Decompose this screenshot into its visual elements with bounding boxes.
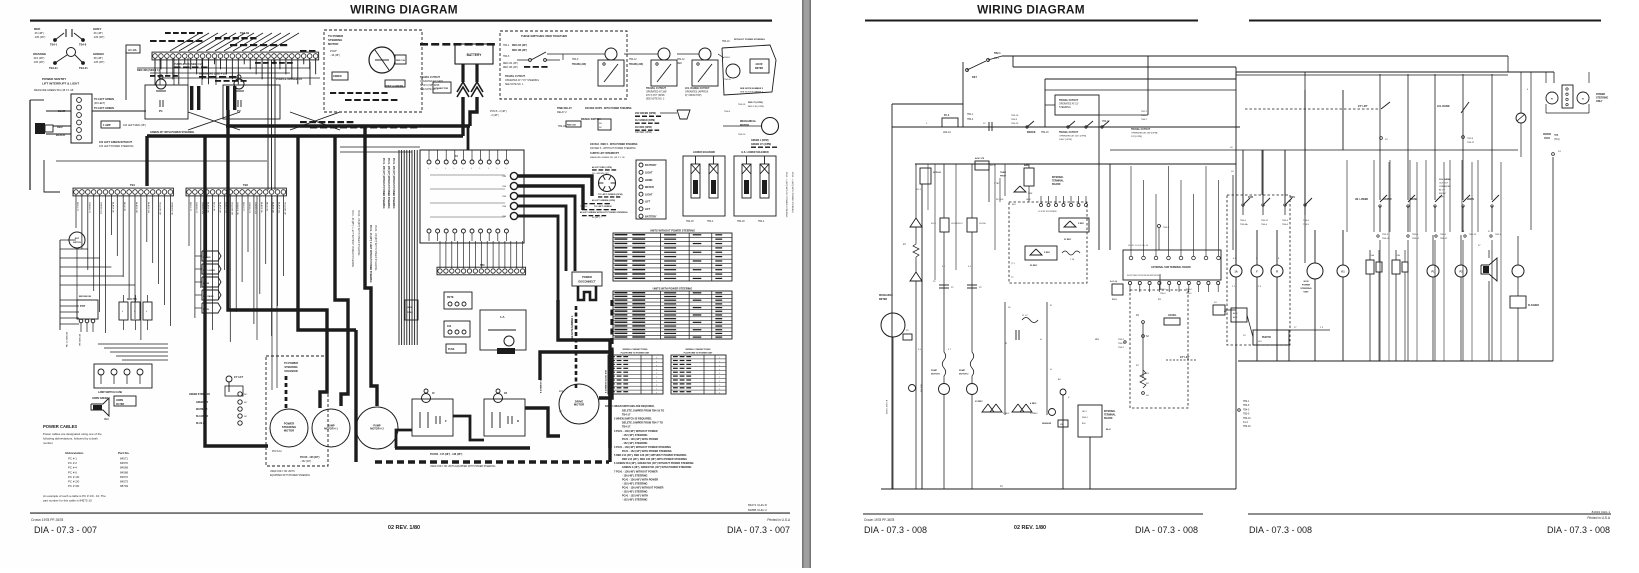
svg-text:BROWN 3M: BROWN 3M [78, 334, 80, 346]
svg-text:PC#1 - 185 (48") WITHOUT POWER: PC#1 - 185 (48") WITHOUT POWER STEERING [387, 158, 390, 209]
svg-text:BOARD: BOARD [1052, 183, 1061, 186]
svg-text:- 2 (48"): - 2 (48") [490, 114, 499, 117]
svg-text:BRAKE: BRAKE [1027, 131, 1036, 134]
svg-text:GREEN STRIPE 2/0: GREEN STRIPE 2/0 [189, 394, 211, 396]
svg-text:Part No.: Part No. [118, 451, 130, 455]
svg-text:TB2: TB2 [243, 183, 248, 187]
svg-text:7: 7 [719, 377, 720, 379]
svg-text:84568: 84568 [120, 470, 128, 474]
svg-text:L3 L5 L7 L4 L5: L3 L5 L7 L4 L5 L9 L10 [1128, 245, 1149, 247]
svg-text:GREY: GREY [93, 27, 102, 31]
svg-text:PC # 4: PC # 4 [68, 466, 77, 470]
svg-text:TB4-19: TB4-19 [722, 41, 730, 43]
svg-text:100 LEFT POWER STEERING: 100 LEFT POWER STEERING [99, 145, 134, 148]
svg-text:FUSE: FUSE [448, 348, 455, 351]
svg-text:GREEN 561: GREEN 561 [201, 202, 203, 215]
svg-text:TB3-11: TB3-11 [1412, 238, 1420, 240]
svg-text:98749: 98749 [120, 484, 128, 488]
svg-text:WHI 4: WHI 4 [1082, 417, 1088, 419]
svg-text:LFE-1A: LFE-1A [943, 131, 951, 134]
svg-text:- 152 (48") STEERING: - 152 (48") STEERING [622, 499, 648, 502]
svg-text:L5A: L5A [1370, 254, 1374, 257]
svg-text:TOP: TOP [1439, 197, 1444, 199]
svg-text:An example of such a cable is: An example of such a cable is PC # 1/0 -… [43, 494, 106, 498]
svg-text:TB3-5: TB3-5 [1303, 224, 1310, 226]
svg-text:USED ONLY ON UNITS: USED ONLY ON UNITS [270, 471, 295, 473]
svg-text:TB3-9: TB3-9 [1011, 119, 1018, 121]
svg-text:TB3-4: TB3-4 [1160, 293, 1166, 295]
svg-text:TB4-17: TB4-17 [622, 426, 631, 429]
svg-text:INTERNAL: INTERNAL [1052, 176, 1064, 179]
svg-text:RED 136 (48"): RED 136 (48") [512, 49, 527, 52]
svg-text:MOTOR: MOTOR [284, 428, 294, 432]
svg-text:84569: 84569 [120, 466, 128, 470]
svg-text:TB4-9: TB4-9 [572, 59, 579, 61]
svg-text:7: 7 [656, 381, 657, 383]
svg-text:7: 7 [656, 389, 657, 391]
svg-text:.016 (48"): .016 (48") [33, 56, 44, 60]
svg-text:YELLOW 2M: YELLOW 2M [283, 202, 285, 215]
svg-text:TB4-31: TB4-31 [79, 66, 88, 70]
svg-text:NC: NC [244, 416, 248, 418]
svg-text:R: R [1276, 270, 1278, 274]
svg-text:MEASURE GREEN 561 (48 X 1 1B: MEASURE GREEN 561 (48 X 1 1B [590, 156, 625, 159]
svg-text:TB3-10: TB3-10 [1382, 238, 1390, 240]
svg-text:PC#4 - 136 (48") WITH POWER ST: PC#4 - 136 (48") WITH POWER STEERING [357, 210, 359, 256]
svg-text:EXTERNAL SCR TERMINAL BOARD: EXTERNAL SCR TERMINAL BOARD [1151, 266, 1191, 269]
svg-text:WHITE 2M: WHITE 2M [196, 409, 207, 411]
svg-text:KEY: KEY [972, 76, 977, 79]
svg-text:TB4-12: TB4-12 [677, 59, 685, 61]
svg-text:.08 (48"): .08 (48") [93, 56, 103, 60]
svg-text:PLATFORM TO POWER UNIT: PLATFORM TO POWER UNIT [621, 352, 650, 355]
svg-text:RED 214 (48"): RED 214 (48") [503, 63, 518, 65]
svg-text:TB3-17: TB3-17 [1102, 121, 1110, 123]
svg-text:- 152 (48"): - 152 (48") [300, 460, 311, 463]
svg-text:LIGHT: LIGHT [645, 172, 653, 175]
svg-text:BLUE 7B: BLUE 7B [266, 202, 268, 212]
svg-text:BLACK 3B: BLACK 3B [260, 202, 263, 213]
svg-text:PETE: PETE [447, 296, 454, 299]
svg-text:TRAVEL CUTOUT: TRAVEL CUTOUT [1131, 128, 1151, 131]
svg-text:GREEN 48" WITH POWER STEERING: GREEN 48" WITH POWER STEERING [150, 131, 194, 134]
svg-text:4 REC: 4 REC [1030, 402, 1037, 405]
svg-text:48 LIFT RED (OPM): 48 LIFT RED (OPM) [592, 166, 612, 169]
svg-text:L1 L2: L1 L2 [1022, 315, 1028, 317]
svg-text:STEERING: STEERING [1059, 107, 1071, 109]
svg-text:L: L [480, 168, 481, 170]
svg-text:L: L [445, 168, 446, 170]
svg-text:TB3-19: TB3-19 [1011, 115, 1019, 117]
svg-text:7: 7 [656, 373, 657, 375]
svg-text:DISCONNECT: DISCONNECT [578, 280, 596, 284]
svg-text:PC#5/8 - 147 (48") - 136 (: PC#5/8 - 147 (48") - 136 (48") [430, 453, 463, 456]
svg-text:SCR-60: SCR-60 [933, 172, 942, 174]
svg-text:GREEN 561 (SEE 4 1/2: GREEN 561 (SEE 4 1/2 [199, 72, 227, 76]
svg-text:TB4-5: TB4-5 [1303, 220, 1310, 222]
svg-text:TO LEFT GREEN: TO LEFT GREEN [94, 98, 114, 101]
svg-text:PC # 2/0: PC # 2/0 [68, 480, 80, 484]
svg-text:- 152 (48") STEERING: - 152 (48") STEERING [622, 482, 648, 485]
svg-text:TB4-9: TB4-9 [1163, 227, 1170, 229]
svg-text:PC # 3/0: PC # 3/0 [68, 484, 80, 488]
svg-text:PHOTO: PHOTO [1262, 336, 1271, 339]
svg-text:L: L [437, 168, 438, 170]
svg-text:L1 W R1 W R W BRN: L1 W R1 W R W BRN [1038, 211, 1057, 213]
svg-text:24 REC: 24 REC [1030, 413, 1038, 415]
svg-text:TB3-2: TB3-2 [1118, 339, 1125, 341]
svg-text:PC # 1: PC # 1 [68, 457, 77, 461]
svg-text:TB4-17: TB4-17 [622, 414, 631, 417]
svg-text:TB4-4: TB4-4 [1240, 220, 1247, 222]
svg-text:TB3-4: TB3-4 [1282, 220, 1289, 222]
svg-text:.135 (48"): .135 (48") [33, 60, 44, 64]
svg-text:HOUR: HOUR [756, 64, 763, 66]
svg-text:48 (48") 7: 48 (48") 7 [592, 217, 602, 219]
svg-text:TB3-12: TB3-12 [1467, 142, 1475, 144]
svg-text:LOWER: LOWER [203, 257, 211, 259]
svg-text:TB4-3: TB4-3 [1243, 409, 1250, 411]
svg-text:DIA - 07.3 - 008: DIA - 07.3 - 008 [1547, 525, 1610, 535]
svg-text:PC# 6-12: PC# 6-12 [272, 451, 282, 453]
svg-text:TB4-11: TB4-11 [1261, 220, 1269, 222]
svg-text:FU-4: FU-4 [944, 114, 950, 117]
svg-text:81919 CHG 1: 81919 CHG 1 [1592, 510, 1611, 514]
svg-text:- 152 (48") STEERING: - 152 (48") STEERING [622, 434, 648, 437]
svg-text:FROM: FROM [1439, 193, 1446, 195]
svg-text:CUTOUT: CUTOUT [1439, 183, 1449, 185]
svg-text:- 136 (48") STEERING: - 136 (48") STEERING [622, 474, 648, 477]
svg-text:A4 1/A: A4 1/A [128, 48, 137, 52]
svg-text:THER: THER [1000, 172, 1006, 174]
svg-text:LOWER SOLENOID: LOWER SOLENOID [693, 151, 715, 154]
svg-text:GREEN 171 (OPM): GREEN 171 (OPM) [751, 144, 771, 146]
svg-text:DELETE JUMPER FROM TB4-7 TO: DELETE JUMPER FROM TB4-7 TO [622, 422, 663, 425]
svg-text:RED 136: RED 136 [396, 60, 406, 62]
svg-text:YELLOW 2M: YELLOW 2M [159, 202, 161, 215]
svg-text:PC#1 - 152 (48") WITH: PC#1 - 152 (48") WITH [622, 495, 648, 498]
svg-text:part number for this cable is: part number for this cable is 84572-10 [43, 499, 92, 503]
svg-text:TRANS (A/R): TRANS (A/R) [572, 63, 586, 66]
svg-text:TB4-4: TB4-4 [758, 221, 765, 223]
svg-text:SENSOR: SENSOR [1042, 423, 1052, 425]
svg-text:OPERATED AT 180°: OPERATED AT 180° [646, 91, 667, 94]
svg-text:TB4-21: TB4-21 [49, 66, 58, 70]
svg-text:POWER CABLES: POWER CABLES [43, 424, 77, 429]
svg-text:- 152 (48") STEERING: - 152 (48") STEERING [622, 491, 648, 494]
svg-text:RAISE: RAISE [203, 282, 210, 285]
svg-text:PC#1 - 152 (48") WITH POWER S: PC#1 - 152 (48") WITH POWER STEERING [622, 450, 672, 453]
svg-text:PC#1 - 1 (48") WITH POWER STEE: PC#1 - 1 (48") WITH POWER STEERING [791, 172, 793, 213]
svg-text:TB2-4: TB2-4 [1412, 234, 1419, 236]
svg-text:TRAVEL CUTOUT: TRAVEL CUTOUT [646, 87, 666, 90]
svg-text:BLACK 3B: BLACK 3B [207, 202, 210, 213]
svg-text:L: L [428, 168, 429, 170]
svg-text:BLACK 6M: BLACK 6M [135, 202, 138, 213]
svg-text:MOTOR # 2: MOTOR # 2 [370, 428, 384, 431]
svg-text:TB3-9: TB3-9 [1243, 414, 1250, 416]
svg-text:PUMP: PUMP [931, 370, 938, 372]
svg-text:BLUE 7B: BLUE 7B [123, 202, 125, 212]
svg-text:1A: 1A [1234, 270, 1237, 274]
svg-text:BATTERY: BATTERY [645, 164, 657, 167]
svg-text:Printed in U.S.A: Printed in U.S.A [767, 518, 791, 522]
svg-text:SEE NOTE NUMBER 3: SEE NOTE NUMBER 3 [572, 315, 574, 340]
svg-text:TERMINAL: TERMINAL [1104, 414, 1116, 417]
svg-text:OPERATED AT 150° [OPM]: OPERATED AT 150° [OPM] [1059, 135, 1086, 138]
svg-text:TO LEFT GREEN: TO LEFT GREEN [594, 206, 612, 208]
svg-text:RED: RED [104, 419, 109, 421]
svg-text:22 REC: 22 REC [1064, 239, 1072, 241]
svg-text:TB2-1: TB2-1 [1243, 401, 1250, 403]
svg-text:METER: METER [879, 299, 887, 301]
svg-text:HORN: HORN [1467, 199, 1474, 201]
svg-text:TB4-20: TB4-20 [724, 79, 732, 81]
svg-text:RED 172: RED 172 [76, 202, 78, 212]
svg-text:112 GREEN (OPM): 112 GREEN (OPM) [635, 120, 655, 122]
svg-text:VIO: VIO [1095, 339, 1099, 341]
svg-text:TB2-1: TB2-1 [994, 52, 1001, 55]
svg-text:PC#1 - 46 (48") 1 LEFT WITHOUT: PC#1 - 46 (48") 1 LEFT WITHOUT POWER STE… [369, 225, 372, 283]
svg-text:DIA - 07.3 - 007: DIA - 07.3 - 007 [34, 525, 97, 535]
svg-text:7: 7 [719, 362, 720, 364]
svg-text:L: L [471, 168, 472, 170]
svg-text:AG3: AG3 [1233, 312, 1238, 315]
svg-text:ONLY: ONLY [1596, 100, 1603, 103]
svg-text:L: L [462, 168, 463, 170]
svg-text:BATTERY: BATTERY [645, 215, 657, 218]
svg-text:PC#16 - 136 (48"): PC#16 - 136 (48") [300, 456, 320, 459]
svg-text:GREEN 23: GREEN 23 [195, 202, 197, 214]
svg-text:POUT A GREEN: POUT A GREEN [385, 85, 403, 88]
svg-text:7: 7 [719, 369, 720, 371]
svg-text:RED 136 (OPM): RED 136 (OPM) [748, 106, 764, 108]
svg-text:1A: 1A [1158, 298, 1161, 301]
svg-text:TB4-18: TB4-18 [737, 221, 745, 223]
svg-text:02 REV. 1/80: 02 REV. 1/80 [388, 525, 420, 531]
svg-text:TO POWER: TO POWER [284, 361, 298, 365]
svg-text:4.5-20A FUSE: 4.5-20A FUSE [227, 92, 230, 108]
svg-text:TB2-13: TB2-13 [1469, 234, 1477, 236]
svg-text:GREEN: GREEN [93, 52, 104, 56]
svg-text:2A1: 2A1 [559, 390, 564, 393]
svg-text:PC#1 - 46 (48") 1 LEFT WITHOUT: PC#1 - 46 (48") 1 LEFT WITHOUT POWER STE… [351, 210, 353, 267]
svg-text:162: 162 [447, 325, 452, 328]
svg-text:308 RED (OPM): 308 RED (OPM) [635, 132, 652, 134]
svg-text:POT: POT [80, 304, 86, 308]
svg-text:L: L [497, 168, 498, 170]
svg-text:206 GREEN (OPM): 206 GREEN (OPM) [635, 112, 656, 115]
svg-text:TB4-18: TB4-18 [686, 221, 694, 223]
svg-text:PUMP: PUMP [959, 370, 966, 372]
svg-text:ACCEL: ACCEL [1168, 314, 1177, 317]
svg-text:TB4-4: TB4-4 [1261, 224, 1268, 226]
svg-text:METER: METER [645, 186, 654, 189]
svg-text:106 BLK / RED 6 - WITH POWER: 106 BLK / RED 6 - WITH POWER STEERING [590, 144, 638, 146]
svg-text:R: R [517, 419, 519, 423]
svg-text:TB3: TB3 [480, 264, 485, 267]
svg-text:GREEN 561: GREEN 561 [254, 202, 256, 215]
svg-text:PROT: PROT [1000, 176, 1007, 178]
svg-text:INTERNAL: INTERNAL [1104, 410, 1116, 413]
svg-text:NON: NON [1304, 281, 1309, 283]
svg-text:TB4-1: TB4-1 [503, 45, 510, 47]
svg-text:P1: P1 [159, 109, 163, 113]
svg-text:REV: REV [1290, 196, 1295, 199]
svg-text:- 18 (48"): - 18 (48") [330, 54, 340, 57]
svg-text:PC # 1/0: PC # 1/0 [68, 475, 80, 479]
svg-text:DISCHARGE: DISCHARGE [879, 294, 893, 297]
svg-text:H.S. LOWER: H.S. LOWER [203, 270, 215, 272]
svg-text:PC#1 - 1 (48") WITHOUT POWER S: PC#1 - 1 (48") WITHOUT POWER STEERING [785, 172, 787, 218]
svg-text:SEE NOTE NUMBER 8: SEE NOTE NUMBER 8 [604, 370, 606, 394]
svg-text:GREEN 561: GREEN 561 [100, 202, 102, 215]
svg-text:ORANGE: ORANGE [33, 52, 46, 56]
svg-text:4.5-20A FUSE: 4.5-20A FUSE [234, 92, 237, 108]
svg-text:SOLENOID: SOLENOID [284, 369, 298, 373]
svg-text:24" LIFT: 24" LIFT [1358, 105, 1368, 108]
svg-text:H.S. LOWER SOLENOID: H.S. LOWER SOLENOID [741, 151, 769, 154]
svg-text:TB2-16: TB2-16 [1041, 132, 1049, 134]
svg-text:OPERATES (APPROX: OPERATES (APPROX [685, 91, 709, 94]
svg-text:GREEN 23: GREEN 23 [88, 202, 90, 214]
svg-text:270 X 270° (SP48: 270 X 270° (SP48 [646, 95, 665, 97]
svg-text:POWER: POWER [1302, 285, 1311, 287]
svg-text:H.S. RAISE: H.S. RAISE [203, 295, 214, 298]
svg-text:HORN: HORN [116, 399, 123, 402]
svg-text:TRAVEL CUTOUT: TRAVEL CUTOUT [1059, 99, 1079, 102]
svg-text:TB4-4: TB4-4 [1186, 289, 1192, 291]
svg-text:DIA - 07.3 - 008: DIA - 07.3 - 008 [1135, 525, 1198, 535]
svg-text:.06 (48"): .06 (48") [34, 31, 44, 35]
svg-text:NO: NO [599, 123, 602, 125]
svg-text:TB4-1: TB4-1 [50, 43, 58, 47]
svg-text:7: 7 [719, 385, 720, 387]
svg-text:HS. LOWER: HS. LOWER [1355, 199, 1368, 201]
svg-text:GREEN 2/0: GREEN 2/0 [196, 402, 209, 404]
svg-text:WIRING DIAGRAM: WIRING DIAGRAM [350, 3, 458, 17]
svg-text:310 RED (OPM): 310 RED (OPM) [635, 127, 652, 129]
svg-text:ORANGE 3B: ORANGE 3B [236, 202, 239, 215]
svg-text:MOL: MOL [408, 307, 414, 309]
svg-text:TB1-1: TB1-1 [967, 114, 974, 116]
svg-text:TB4-5: TB4-5 [503, 56, 510, 58]
svg-text:TB1: TB1 [130, 183, 135, 187]
svg-text:RED 366 (SEE 1 1): RED 366 (SEE 1 1) [137, 68, 160, 72]
svg-text:TB2-8: TB2-8 [1467, 138, 1474, 140]
svg-text:115 GREEN (48"): 115 GREEN (48") [592, 173, 609, 175]
svg-text:RED: RED [677, 63, 682, 65]
svg-text:.06 (48"): .06 (48") [93, 31, 103, 35]
svg-text:7: 7 [656, 385, 657, 387]
svg-text:2 WHEN SWITCH IS REQUIRED,: 2 WHEN SWITCH IS REQUIRED, [614, 418, 652, 421]
svg-text:H.S. RAISE: H.S. RAISE [1437, 105, 1450, 108]
svg-text:7: 7 [719, 381, 720, 383]
svg-text:MEASURE GREEN 561 (48 X 1 1B: MEASURE GREEN 561 (48 X 1 1B [34, 89, 74, 92]
svg-text:TB4-20: TB4-20 [738, 134, 746, 136]
svg-text:RAISE: RAISE [1410, 198, 1417, 201]
svg-text:SWITCH: SWITCH [73, 242, 81, 244]
svg-text:RED 214 (48"): RED 214 (48") [512, 44, 527, 47]
svg-text:MOTOR: MOTOR [740, 124, 749, 127]
svg-text:FOR: FOR [1248, 196, 1253, 199]
svg-text:TB3-20: TB3-20 [1243, 426, 1251, 428]
svg-text:MOTOR: MOTOR [574, 403, 584, 407]
svg-text:LIFT: LIFT [645, 201, 651, 204]
svg-text:L5B: L5B [1396, 255, 1400, 257]
svg-text:5 RED 214 (48"), RED 136 (48: 5 RED 214 (48"), RED 136 (48") WITHOUT P… [614, 454, 686, 457]
svg-text:(48 LEFT): (48 LEFT) [94, 102, 105, 105]
svg-text:ACK-175: ACK-175 [975, 157, 985, 160]
svg-text:TIME DELAY: TIME DELAY [557, 107, 572, 110]
svg-text:EQUIPPED WITH POWER STEERING: EQUIPPED WITH POWER STEERING [270, 475, 310, 477]
svg-text:PCM 8 - 2 (48"): PCM 8 - 2 (48") [490, 110, 507, 113]
svg-text:23 REC: 23 REC [975, 401, 983, 403]
svg-text:PC#1 - 136 (48") WITH POWER: PC#1 - 136 (48") WITH POWER [622, 438, 658, 441]
svg-text:OPERATES: OPERATES [1439, 185, 1451, 188]
svg-text:TB4-2: TB4-2 [1118, 347, 1125, 349]
svg-text:84570: 84570 [120, 461, 128, 465]
svg-text:84572: 84572 [120, 475, 128, 479]
svg-text:FILTER: FILTER [116, 403, 124, 406]
svg-text:A 2 XXX 2 XXXX: A 2 XXX 2 XXXX [885, 400, 888, 415]
svg-text:7: 7 [656, 393, 657, 395]
svg-text:84573: 84573 [120, 480, 128, 484]
svg-text:DELETE JUMPER FROM TB4-16 TO: DELETE JUMPER FROM TB4-16 TO [622, 410, 664, 413]
svg-text:LIGHT: LIGHT [645, 193, 653, 196]
svg-text:PC#4 - 136 (48") WITH POWER ST: PC#4 - 136 (48") WITH POWER STEERING [374, 225, 376, 271]
svg-text:TO LEFT GREEN (OPM): TO LEFT GREEN (OPM) [598, 194, 623, 196]
svg-text:1400° [OPM]: 1400° [OPM] [1059, 139, 1072, 141]
svg-text:RED 214 (48"), RED 136 (48"): RED 214 (48"), RED 136 (48") WITH POWER … [622, 458, 687, 461]
svg-text:TB3-5: TB3-5 [1243, 405, 1250, 407]
svg-text:YELLOW 2M: YELLOW 2M [230, 202, 232, 215]
svg-text:UNIT: UNIT [1303, 292, 1309, 294]
svg-text:POWER: POWER [582, 275, 592, 279]
svg-text:STEERING: STEERING [1300, 288, 1311, 290]
svg-text:OPERATES AT 15°: OPERATES AT 15° [1059, 103, 1079, 106]
svg-text:48 LIFT GREEN WITHOUT POWER ST: 48 LIFT GREEN WITHOUT POWER STEERING [580, 211, 628, 214]
svg-text:R4 R7 R60 P3 R5 R6 M6 W2 R3 R4: R4 R7 R60 P3 R5 R6 M6 W2 R3 R4 [1127, 275, 1160, 277]
svg-text:BROWN ST. 3M: BROWN ST. 3M [65, 332, 67, 347]
svg-text:GRN: GRN [1026, 199, 1031, 201]
svg-text:PC # 6: PC # 6 [68, 470, 77, 474]
svg-text:7: 7 [719, 365, 720, 367]
svg-text:306 RED X/OPS - WITH POWER S: 306 RED X/OPS - WITH POWER STEERING [585, 108, 632, 110]
svg-text:K1-2: K1-2 [1243, 422, 1249, 424]
svg-text:Printed in U.S.A: Printed in U.S.A [1587, 516, 1611, 520]
svg-text:TB2-9: TB2-9 [1495, 234, 1502, 236]
svg-text:LIFT: LIFT [645, 208, 651, 211]
svg-text:1R: 1R [504, 392, 507, 395]
svg-text:ORANGE 3B: ORANGE 3B [170, 202, 173, 215]
svg-text:.135 (48"): .135 (48") [34, 35, 45, 39]
svg-text:GREEN 4 (48"), GREEN 561 (48": GREEN 4 (48"), GREEN 561 (48") WITH POWE… [622, 466, 692, 469]
svg-text:Crown 1978 PF-3678: Crown 1978 PF-3678 [864, 518, 895, 522]
svg-text:TRAVEL CUTOUT: TRAVEL CUTOUT [420, 76, 440, 79]
svg-text:BLK: BLK [1012, 204, 1016, 206]
svg-text:USED ONLY ON UNITS EQUIPPED W: USED ONLY ON UNITS EQUIPPED WITH POWER S… [430, 466, 496, 468]
svg-text:LS-200: LS-200 [979, 223, 987, 225]
svg-text:FU-1: FU-1 [916, 189, 922, 191]
svg-text:TB2-5: TB2-5 [1440, 234, 1447, 236]
svg-text:7: 7 [656, 377, 657, 379]
svg-text:7: 7 [719, 393, 720, 395]
svg-text:RED 256: RED 256 [567, 125, 577, 127]
svg-text:TB4-6: TB4-6 [1282, 224, 1289, 226]
svg-text:UNITS WITH POWER STEERING: UNITS WITH POWER STEERING [653, 287, 693, 291]
svg-text:3 REC: 3 REC [1003, 413, 1010, 415]
